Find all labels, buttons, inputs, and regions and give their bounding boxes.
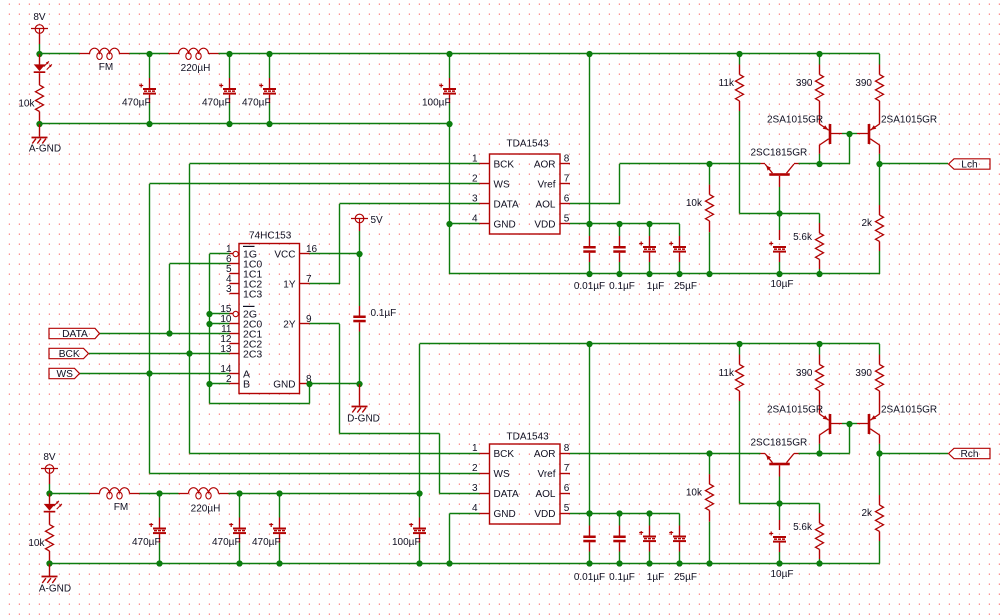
svg-text:2C3: 2C3	[243, 348, 262, 360]
svg-text:FM: FM	[114, 502, 128, 513]
wire PNP base link (bottom)	[830, 423, 869, 425]
wire BCK flag line	[89, 353, 230, 355]
svg-text:2SC1815GR: 2SC1815GR	[751, 438, 808, 449]
wire Lch node vertical	[879, 154, 881, 164]
label TDA1543 (bottom)	[507, 432, 550, 443]
svg-text:470µF: 470µF	[212, 537, 241, 548]
junction gnd rail 25&#181;F (bottom)	[676, 560, 682, 566]
label 11k (top)	[719, 78, 735, 89]
junction gnd rail 25&#181;F (top)	[676, 271, 682, 277]
junction Rch node	[876, 450, 882, 456]
junction 10k top-right	[706, 161, 712, 167]
svg-text:Vref: Vref	[538, 469, 556, 480]
resistor 5.6k (top)	[816, 214, 824, 275]
label TDA1543 (top)	[507, 139, 550, 150]
node WS input flag	[49, 368, 80, 380]
transistor Q2 2SA1015GR #1 (top)	[820, 124, 832, 154]
svg-text:8V: 8V	[33, 12, 46, 23]
label 470uF #2 (bottom)	[212, 537, 241, 548]
wire top rail segment 2	[130, 53, 169, 55]
resistor 11k (top)	[736, 54, 744, 214]
junction bottom rail cap1	[156, 490, 162, 566]
svg-text:1µF: 1µF	[647, 572, 664, 583]
inductor 220uH (top)	[169, 48, 219, 59]
junction VDD cap 0.1&#181;F (bottom)	[616, 510, 622, 516]
svg-text:10k: 10k	[28, 538, 45, 549]
resistor 10k (top left)	[36, 85, 44, 124]
node Lch output flag	[949, 159, 991, 171]
svg-text:470µF: 470µF	[202, 98, 231, 109]
junction 2SA1 collector (top)	[816, 161, 822, 167]
IC U1 TDA1543 (top)	[472, 154, 570, 235]
wire GND pin to dgnd column	[310, 383, 360, 385]
wire 2SC base down (top)	[779, 176, 781, 214]
svg-text:TDA1543: TDA1543	[507, 139, 550, 150]
junction bottom-of-LED rail (top)	[36, 121, 42, 127]
wire 1Y to TDA1 DATA	[310, 204, 480, 285]
svg-text:8: 8	[564, 443, 570, 454]
resistor 390 #2 (bottom)	[876, 344, 884, 414]
label 5.6k (bottom)	[793, 522, 813, 533]
svg-text:AOL: AOL	[535, 489, 555, 500]
label 10uF (top)	[771, 279, 794, 290]
wire Rch to flag	[880, 453, 949, 455]
junction VDD column (bottom)	[586, 510, 592, 516]
label 0.1&#181;F (bottom)	[609, 572, 635, 583]
capacitor 100uF (top)	[439, 54, 456, 124]
label 11k (bottom)	[719, 368, 735, 379]
label 74HC153	[249, 231, 292, 242]
svg-text:0.01µF: 0.01µF	[574, 281, 605, 292]
wire 5V column to cap	[359, 254, 361, 316]
resistor 10k (bottom left)	[46, 525, 54, 564]
resistor 390 #2 (top)	[876, 54, 884, 124]
junction 10k gnd (bottom)	[706, 560, 712, 566]
label 390 #1 (top)	[796, 78, 813, 89]
wire AOR to output line (bottom)	[570, 453, 761, 455]
capacitor 470uF #1 (top)	[139, 54, 156, 124]
svg-text:1µF: 1µF	[647, 281, 664, 292]
svg-text:6: 6	[564, 483, 570, 494]
junction bottom rail cap2	[236, 490, 242, 566]
svg-text:D-GND: D-GND	[347, 414, 380, 425]
svg-text:2SA1015GR: 2SA1015GR	[881, 115, 937, 126]
junction TDA2 gnd rail	[446, 560, 452, 566]
label 2k (top)	[861, 218, 873, 229]
junction gnd rail 1&#181;F (top)	[646, 271, 652, 277]
resistor 2k (bottom)	[876, 454, 884, 564]
svg-text:25µF: 25µF	[674, 281, 697, 292]
svg-text:FM: FM	[99, 62, 113, 73]
capacitor 0.01&#181;F (top)	[583, 224, 595, 274]
transistor Q3 2SA1015GR #2 (top)	[868, 124, 880, 154]
junction PNP bases (top)	[846, 131, 852, 137]
svg-text:5: 5	[564, 503, 570, 514]
wire VCC	[310, 253, 360, 255]
label 10k (bottom left)	[28, 538, 45, 549]
junction DATA to 1C0	[166, 330, 172, 336]
wire WS to TDA2 pin2	[150, 473, 480, 475]
junction 11k rail (bottom)	[736, 341, 742, 347]
junction 11k rail (top)	[736, 51, 742, 57]
74HC153 right pins	[273, 244, 317, 390]
junction 2G	[206, 311, 212, 317]
74HC153 left pins	[220, 244, 262, 390]
svg-text:10k: 10k	[686, 198, 703, 209]
junction gnd rail 0.1&#181;F (top)	[616, 271, 622, 277]
wire bases to collector line (bottom)	[849, 424, 851, 454]
wire 2SC collector line (top)	[799, 163, 850, 165]
junction bottom gnd rail at 8V column	[46, 560, 52, 566]
svg-text:2k: 2k	[861, 508, 873, 519]
svg-text:A-GND: A-GND	[39, 584, 71, 595]
svg-text:2SA1015GR: 2SA1015GR	[767, 405, 823, 416]
junction top rail cap1	[146, 51, 152, 127]
junction bottom rails 100uF	[416, 490, 422, 566]
label FM (top)	[99, 62, 113, 73]
svg-text:5.6k: 5.6k	[793, 232, 813, 243]
svg-text:5: 5	[564, 214, 570, 225]
label 10k (top right)	[686, 198, 703, 209]
svg-text:8V: 8V	[43, 452, 56, 463]
junction 2SA1 collector (bottom)	[816, 450, 822, 456]
junction PNP bases (bottom)	[846, 421, 852, 427]
label 0.01&#181;F (bottom)	[574, 572, 605, 583]
wire bases to collector line (top)	[849, 134, 851, 164]
wire TDA1 GND pin4	[450, 223, 480, 225]
svg-text:Vref: Vref	[538, 179, 556, 190]
svg-text:VDD: VDD	[534, 219, 555, 230]
wire 2G branch	[210, 313, 230, 315]
power supply 8V symbol (top)	[31, 25, 48, 44]
junction 390-1 rail (top)	[816, 51, 822, 57]
label D-GND	[347, 414, 380, 425]
resistor 2k (top)	[876, 164, 884, 274]
label 390 #2 (top)	[855, 78, 872, 89]
wire B branch	[210, 383, 230, 385]
label 10uF (bottom)	[771, 569, 794, 580]
wire Rch node vertical	[879, 444, 881, 454]
resistor 11k (bottom)	[736, 344, 744, 504]
label 470uF #3 (bottom)	[252, 537, 281, 548]
junction VDD cap 1&#181;F (bottom)	[646, 510, 652, 516]
svg-text:11k: 11k	[719, 78, 735, 89]
svg-text:VDD: VDD	[534, 509, 555, 520]
svg-text:GND: GND	[273, 379, 295, 390]
inductor FM (top)	[80, 48, 130, 59]
svg-text:100µF: 100µF	[392, 537, 421, 548]
resistor 5.6k (bottom)	[816, 504, 824, 564]
inductor 220uH (bottom)	[179, 488, 229, 499]
svg-text:DATA: DATA	[494, 489, 520, 500]
junction top rail at 8V column	[36, 51, 42, 57]
svg-text:1Y: 1Y	[283, 279, 296, 290]
wire PNP base link (top)	[830, 133, 869, 135]
inductor FM (bottom)	[90, 488, 140, 499]
svg-text:AOR: AOR	[534, 449, 556, 460]
svg-text:BCK: BCK	[494, 449, 515, 460]
wire WS net: TDA1 pin2 line	[150, 183, 480, 185]
power supply 5V symbol	[351, 214, 368, 231]
svg-text:2SC1815GR: 2SC1815GR	[751, 148, 808, 159]
wire bottom rail segment 1	[50, 493, 90, 495]
wire 2Y to TDA2 DATA	[310, 324, 480, 494]
svg-text:DATA: DATA	[494, 199, 520, 210]
wire gnd bus 1G/2G/2C0/B	[210, 254, 230, 404]
wire bottom gnd rail	[50, 563, 880, 565]
svg-text:GND: GND	[494, 219, 516, 230]
wire TDA2 GND pin4	[450, 514, 480, 564]
label 2SA1015GR #1 (top)	[767, 115, 823, 126]
wire 8V to bottom rail	[49, 484, 51, 494]
capacitor 470uF #2 (top)	[219, 54, 236, 124]
svg-text:3: 3	[472, 483, 478, 494]
capacitor 0.1&#181;F (top)	[613, 224, 625, 274]
junction 5.6k gnd (top)	[816, 271, 822, 277]
svg-text:74HC153: 74HC153	[249, 231, 292, 242]
svg-text:4: 4	[472, 503, 478, 514]
label 10k (top left)	[18, 99, 35, 110]
junction VDD cap 0.01&#181;F (bottom)	[586, 510, 592, 516]
wire top rail segment 3	[219, 53, 880, 55]
svg-text:2Y: 2Y	[283, 319, 296, 330]
wire BCK vertical bus	[189, 164, 191, 454]
transistor Q4 2SC1815GR (bottom)	[761, 454, 799, 466]
label FM (bottom)	[114, 502, 128, 513]
wire VDD line (top)	[570, 223, 680, 225]
wire top filter gnd rail	[40, 123, 450, 125]
transistor Q1 2SC1815GR (top)	[761, 164, 799, 176]
label 8V (bottom)	[43, 452, 56, 463]
label A-GND (top)	[29, 144, 61, 155]
junction VDD column	[586, 221, 592, 227]
wire WS vertical bus	[149, 184, 151, 474]
svg-text:3: 3	[226, 284, 232, 295]
svg-text:470µF: 470µF	[122, 98, 151, 109]
IC U3 TDA1543 (bottom)	[472, 443, 570, 524]
svg-text:BCK: BCK	[494, 159, 515, 170]
label 2SA1015GR #2 (bottom)	[881, 405, 937, 416]
wire 8V to VDD (top)	[589, 54, 591, 224]
label 100uF (bottom)	[392, 537, 421, 548]
junction bottom rail cap3	[276, 490, 282, 566]
capacitor 1&#181;F (top)	[639, 224, 656, 274]
svg-text:1: 1	[472, 443, 478, 454]
wire 100uF column down to gnd rail	[449, 124, 451, 274]
junction 390-1 rail (bottom)	[816, 341, 822, 347]
svg-text:7: 7	[564, 463, 570, 474]
node BCK input flag	[49, 348, 89, 360]
junction 10uF gnd (bottom)	[776, 560, 782, 566]
capacitor 25&#181;F (top)	[669, 224, 686, 274]
junction top rail cap2	[226, 51, 232, 127]
svg-text:0.1µF: 0.1µF	[371, 308, 397, 319]
label 0.1uF (5V)	[371, 308, 397, 319]
svg-text:TDA1543: TDA1543	[507, 432, 550, 443]
svg-text:390: 390	[855, 368, 872, 379]
capacitor 470uF #1 (bottom)	[149, 494, 166, 564]
wire gnd loop under IC	[210, 384, 310, 404]
svg-text:0.1µF: 0.1µF	[609, 281, 635, 292]
svg-text:Lch: Lch	[961, 159, 977, 170]
wire gnd rail (top section)	[450, 273, 880, 275]
svg-text:0.01µF: 0.01µF	[574, 572, 605, 583]
svg-text:470µF: 470µF	[132, 537, 161, 548]
wire 8V to VDD (bottom)	[589, 344, 591, 514]
svg-text:6: 6	[564, 194, 570, 205]
label 470uF #1 (bottom)	[132, 537, 161, 548]
capacitor 470uF #3 (bottom)	[269, 494, 286, 564]
junction B pin	[206, 381, 212, 387]
label 25&#181;F (bottom)	[674, 572, 697, 583]
svg-text:10k: 10k	[18, 99, 35, 110]
capacitor 470uF #3 (top)	[259, 54, 276, 124]
label 100uF (top)	[422, 98, 451, 109]
label 2SC1815GR (top)	[751, 148, 808, 159]
junction VDD cap 1&#181;F	[646, 221, 652, 227]
junction 8V rail VDD column (bottom)	[586, 341, 592, 347]
svg-text:B: B	[243, 378, 250, 390]
svg-text:25µF: 25µF	[674, 572, 697, 583]
junction bottom rail at 8V	[46, 490, 52, 496]
svg-text:2SA1015GR: 2SA1015GR	[881, 405, 937, 416]
LED D1 (top)	[34, 54, 52, 85]
junction VDD cap 0.1&#181;F	[616, 221, 622, 227]
svg-text:WS: WS	[494, 179, 510, 190]
label 2SA1015GR #2 (top)	[881, 115, 937, 126]
label 8V (top)	[33, 12, 46, 23]
wire 2SA1 collector drop (top)	[819, 154, 821, 164]
svg-text:390: 390	[796, 78, 813, 89]
wire Lch to flag	[880, 163, 949, 165]
svg-text:Rch: Rch	[960, 449, 978, 460]
LED D2 (bottom)	[44, 494, 62, 525]
svg-text:DATA: DATA	[62, 329, 88, 340]
ground D-GND	[352, 384, 368, 413]
svg-text:2SA1015GR: 2SA1015GR	[767, 115, 823, 126]
label 220uH (top)	[181, 63, 211, 74]
label 390 #1 (bottom)	[796, 368, 813, 379]
junction 5.6k gnd (bottom)	[816, 560, 822, 566]
label 220uH (bottom)	[191, 504, 221, 515]
svg-text:220µH: 220µH	[181, 63, 211, 74]
svg-text:7: 7	[564, 174, 570, 185]
capacitor 100uF (bottom)	[409, 494, 426, 564]
svg-text:5.6k: 5.6k	[793, 522, 813, 533]
svg-text:AOL: AOL	[535, 199, 555, 210]
wire base bias line (bottom)	[740, 503, 820, 505]
junction top rail 100uF	[446, 51, 452, 127]
svg-text:470µF: 470µF	[252, 537, 281, 548]
wire 8V to top rail	[39, 44, 41, 54]
wire 2SA1 collector drop (bottom)	[819, 444, 821, 454]
svg-text:10µF: 10µF	[771, 569, 794, 580]
node DATA input flag	[49, 328, 100, 340]
label 2k (bottom)	[861, 508, 873, 519]
capacitor 25&#181;F (bottom)	[669, 514, 686, 564]
wire WS flag line	[80, 373, 230, 375]
capacitor 0.01&#181;F (bottom)	[583, 514, 595, 564]
label 2SC1815GR (bottom)	[751, 438, 808, 449]
svg-text:VCC: VCC	[274, 249, 295, 260]
svg-text:8: 8	[564, 154, 570, 165]
junction 2C0	[206, 321, 212, 327]
junction VDD cap 0.01&#181;F	[586, 221, 592, 227]
transistor Q6 2SA1015GR #2 (bottom)	[868, 414, 880, 444]
label 390 #2 (bottom)	[855, 368, 872, 379]
wire VDD line (bottom)	[570, 513, 680, 515]
svg-text:11k: 11k	[719, 368, 735, 379]
label 0.1&#181;F (top)	[609, 281, 635, 292]
junction 10k gnd (top)	[706, 271, 712, 277]
wire 2SC base down (bottom)	[779, 465, 781, 503]
junction base bias (bottom)	[776, 500, 782, 506]
svg-text:BCK: BCK	[59, 349, 80, 360]
label 5V	[371, 215, 384, 226]
wire base bias line (top)	[740, 213, 820, 215]
svg-text:WS: WS	[57, 369, 74, 380]
ground A-GND (top)	[32, 124, 48, 144]
label 10k (bottom right)	[686, 488, 703, 499]
junction WS flag	[146, 370, 152, 376]
label 470uF #3 (top)	[242, 98, 271, 109]
resistor 10k (top right)	[706, 164, 714, 274]
junction 8V rail VDD column	[586, 51, 592, 57]
svg-text:0.1µF: 0.1µF	[609, 572, 635, 583]
junction Lch node	[876, 161, 882, 167]
svg-text:220µH: 220µH	[191, 504, 221, 515]
wire 5V to VCC junction	[359, 231, 361, 254]
svg-text:10k: 10k	[686, 488, 703, 499]
transistor Q5 2SA1015GR #1 (bottom)	[820, 414, 832, 444]
IC U2 74HC153 box	[239, 244, 300, 394]
wire 2C0 branch	[210, 323, 230, 325]
svg-text:5V: 5V	[371, 215, 384, 226]
junction TDA1 pin4	[446, 221, 452, 227]
capacitor 0.1uF (5V decoupling)	[353, 316, 365, 323]
junction gnd rail 0.01&#181;F (top)	[586, 271, 592, 277]
wire bottom rail segment 2	[140, 493, 179, 495]
power supply 8V symbol (bottom)	[41, 465, 58, 484]
node Rch output flag	[949, 448, 991, 460]
junction base bias (top)	[776, 210, 782, 216]
capacitor 10uF (bottom)	[769, 504, 786, 564]
label 470uF #1 (top)	[122, 98, 151, 109]
label 1&#181;F (top)	[647, 281, 664, 292]
capacitor 470uF #2 (bottom)	[229, 494, 246, 564]
label 2SA1015GR #1 (bottom)	[767, 405, 823, 416]
resistor 390 #1 (bottom)	[816, 344, 824, 414]
wire bottom rail segment 3	[229, 493, 420, 495]
wire AOL to output line	[570, 164, 761, 205]
label 470uF #2 (top)	[202, 98, 231, 109]
svg-text:2: 2	[472, 463, 478, 474]
junction GND pin 74HC153	[306, 381, 312, 387]
junction top rail cap3	[266, 51, 272, 127]
svg-text:WS: WS	[494, 469, 510, 480]
junction gnd rail 1&#181;F (bottom)	[646, 560, 652, 566]
wire 1C0 branch	[170, 264, 230, 334]
svg-text:100µF: 100µF	[422, 98, 451, 109]
svg-text:A-GND: A-GND	[29, 144, 61, 155]
wire BCK net: TDA1 pin1 line	[190, 163, 480, 165]
wire 2SC collector line (bottom)	[799, 453, 850, 455]
svg-text:390: 390	[855, 78, 872, 89]
label 0.01&#181;F (top)	[574, 281, 605, 292]
svg-text:AOR: AOR	[534, 159, 556, 170]
svg-text:10µF: 10µF	[771, 279, 794, 290]
label A-GND (bottom)	[39, 584, 71, 595]
